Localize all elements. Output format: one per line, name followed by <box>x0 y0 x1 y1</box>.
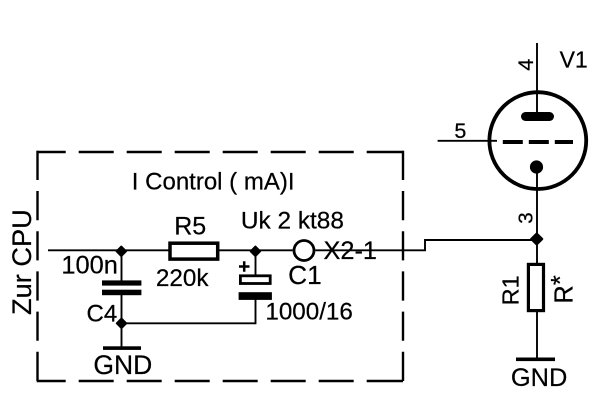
dashed control-box frame bottom edge <box>37 380 403 382</box>
svg-text:I Control ( mA)I: I Control ( mA)I <box>132 168 295 195</box>
capacitor C1 polarity plus sign <box>239 261 250 272</box>
capacitor C4 plates <box>102 280 141 285</box>
tube V1 cathode dot <box>530 160 543 173</box>
wire: R5 to connector X2-1 <box>219 249 293 251</box>
dashed control-box frame right edge <box>402 151 404 382</box>
svg-text:C4: C4 <box>87 301 118 328</box>
svg-text:Zur CPU: Zur CPU <box>6 209 37 315</box>
svg-text:GND: GND <box>93 350 152 380</box>
tube V1 envelope <box>489 92 586 189</box>
svg-text:3: 3 <box>514 212 537 223</box>
tube V1 anode bar <box>526 112 550 121</box>
wire: pin 3 cathode lead <box>536 167 538 240</box>
node junction at cathode <box>531 233 542 244</box>
tube V1 grid dashes <box>503 140 573 144</box>
svg-text:R5: R5 <box>174 212 206 240</box>
node junction at C4 tap <box>117 247 126 256</box>
wire: pin 4 anode lead <box>536 43 538 114</box>
wire: junction down to C1 <box>255 250 257 275</box>
dashed control-box frame top edge <box>37 151 403 153</box>
svg-text:R*: R* <box>547 275 578 304</box>
resistor R5 <box>170 243 218 259</box>
svg-text:5: 5 <box>454 119 466 143</box>
wire: pin 5 grid lead <box>438 140 497 142</box>
wire: left input to R5 <box>48 249 169 251</box>
wire: ground rail to electrolytic bottom <box>122 322 256 324</box>
svg-text:GND: GND <box>511 364 567 392</box>
svg-text:100n: 100n <box>61 251 117 279</box>
wire: C1 bottom to ground rail <box>255 298 257 324</box>
svg-text:R1: R1 <box>497 275 523 305</box>
svg-text:X2-1: X2-1 <box>324 237 377 265</box>
dashed control-box frame left edge <box>36 151 38 382</box>
svg-text:220k: 220k <box>156 265 210 292</box>
capacitor C1 positive plate <box>240 276 270 284</box>
connector X2-1 circle <box>294 241 314 261</box>
svg-text:4: 4 <box>514 59 538 71</box>
svg-text:C1: C1 <box>288 260 322 290</box>
node junction at C1 tap <box>251 247 260 256</box>
svg-text:1000/16: 1000/16 <box>265 299 352 326</box>
wire: junction down to C4 <box>121 250 123 281</box>
svg-text:Uk 2 kt88: Uk 2 kt88 <box>241 208 344 235</box>
wire: C4 bottom to ground rail <box>121 295 123 323</box>
capacitor C1 negative plate <box>239 292 272 300</box>
wire: node to R1 <box>536 240 538 264</box>
wire: X2-1 to tube cathode node <box>315 240 537 250</box>
node junction at ground rail <box>117 319 126 328</box>
svg-text:V1: V1 <box>560 47 588 73</box>
wire: junction to GND symbol <box>121 323 123 347</box>
ground symbol right <box>516 358 555 362</box>
resistor R1 <box>528 264 543 310</box>
ground symbol left <box>103 346 141 350</box>
wire: R1 to ground <box>536 311 538 358</box>
